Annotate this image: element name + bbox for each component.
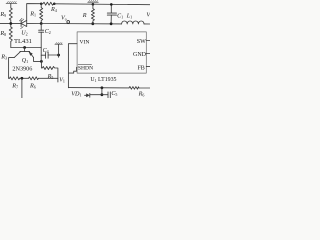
svg-text:R4: R4 [50, 6, 57, 13]
svg-text:U1 LT1935: U1 LT1935 [90, 77, 116, 83]
wire top rail to right [54, 3, 150, 6]
wire V_o rail middle [41, 23, 121, 25]
svg-text:VIN: VIN [80, 39, 90, 45]
transistor Q1 2N3906 [9, 48, 42, 79]
svg-text:R1: R1 [29, 10, 36, 17]
op: TL431 U2 shunt regulator [19, 18, 26, 28]
svg-text:SW: SW [137, 39, 146, 45]
resistor R5 branch [41, 61, 58, 82]
power symbol top-middle [88, 0, 99, 2]
svg-text:TL431: TL431 [14, 38, 32, 45]
wire bottom-left rail [8, 77, 11, 79]
wire SHDN hook [68, 67, 77, 73]
wire down to edge [21, 78, 23, 98]
pin GND stub [146, 53, 150, 55]
svg-text:C2: C2 [45, 29, 51, 35]
svg-text:C4: C4 [43, 48, 49, 54]
node dot bottom tap [21, 77, 24, 80]
wire rail 2 [90, 94, 108, 96]
svg-text:V: V [146, 12, 150, 19]
svg-text:2N3906: 2N3906 [12, 65, 32, 72]
pin FB stub [146, 66, 150, 68]
wire [10, 20, 12, 27]
diode VD1 [85, 93, 90, 97]
resistor R6 bottom-right [129, 87, 139, 90]
svg-text:C1: C1 [117, 13, 123, 19]
svg-text:L1: L1 [126, 14, 132, 20]
node dot rail2 [101, 93, 104, 96]
pin SW stub [146, 40, 150, 42]
wire rail to right edge [144, 23, 150, 25]
svg-text:R5: R5 [47, 73, 54, 80]
wire R8 bottom to base wire [10, 42, 12, 48]
node junction left [9, 22, 12, 25]
wire base wire [11, 47, 41, 49]
svg-text:VD1: VD1 [71, 90, 81, 97]
resistor R1 vertical [40, 4, 43, 24]
svg-text:U2: U2 [21, 31, 27, 37]
wire rail through TL431 [27, 22, 42, 24]
svg-text:R3: R3 [0, 53, 7, 60]
capacitor C2 [39, 22, 44, 47]
resistor R4 horizontal on top wire [41, 2, 54, 5]
svg-text:R6: R6 [138, 90, 145, 97]
node V_o terminal circle [67, 21, 70, 24]
resistor R8 [9, 27, 12, 42]
inductor L1 [122, 21, 144, 24]
capacitor C1 [107, 3, 116, 25]
svg-text:SHDN: SHDN [78, 66, 93, 72]
svg-text:Q1: Q1 [22, 58, 28, 64]
svg-text:R6: R6 [29, 83, 36, 90]
power symbol top-left [6, 1, 17, 8]
svg-text:R7: R7 [11, 83, 18, 90]
wire VIN connection [68, 44, 77, 88]
resistor R6 lower-left [29, 77, 39, 80]
node dot rail1 [101, 86, 104, 89]
node dot R1 top [40, 2, 43, 4]
wire bottom rail 1 [68, 87, 129, 89]
wire connector rail1-rail2 [101, 88, 103, 95]
svg-text:R8: R8 [0, 30, 6, 37]
svg-text:R9: R9 [0, 11, 6, 18]
capacitor C5 [108, 92, 110, 98]
node dot base [23, 46, 26, 49]
svg-text:GND: GND [133, 52, 147, 58]
resistor R9 [9, 8, 12, 20]
wire V_o rail left [0, 22, 21, 24]
power symbol middle [55, 43, 63, 58]
node dot R bottom [91, 22, 94, 25]
node dot R4 right [53, 3, 56, 6]
node dot C4 right [57, 54, 60, 57]
node dot R top [92, 3, 95, 6]
IC U1 LT1935 box [77, 32, 146, 73]
svg-text:FB: FB [137, 66, 144, 72]
capacitor C4 [41, 48, 58, 62]
node dot collector/R5 [40, 60, 43, 63]
svg-text:V1: V1 [59, 77, 65, 83]
wire REF up and top wire [27, 4, 42, 21]
resistor R vertical [91, 4, 94, 23]
svg-text:C5: C5 [111, 91, 117, 97]
resistor R7 [10, 77, 20, 80]
svg-text:R: R [82, 12, 87, 19]
